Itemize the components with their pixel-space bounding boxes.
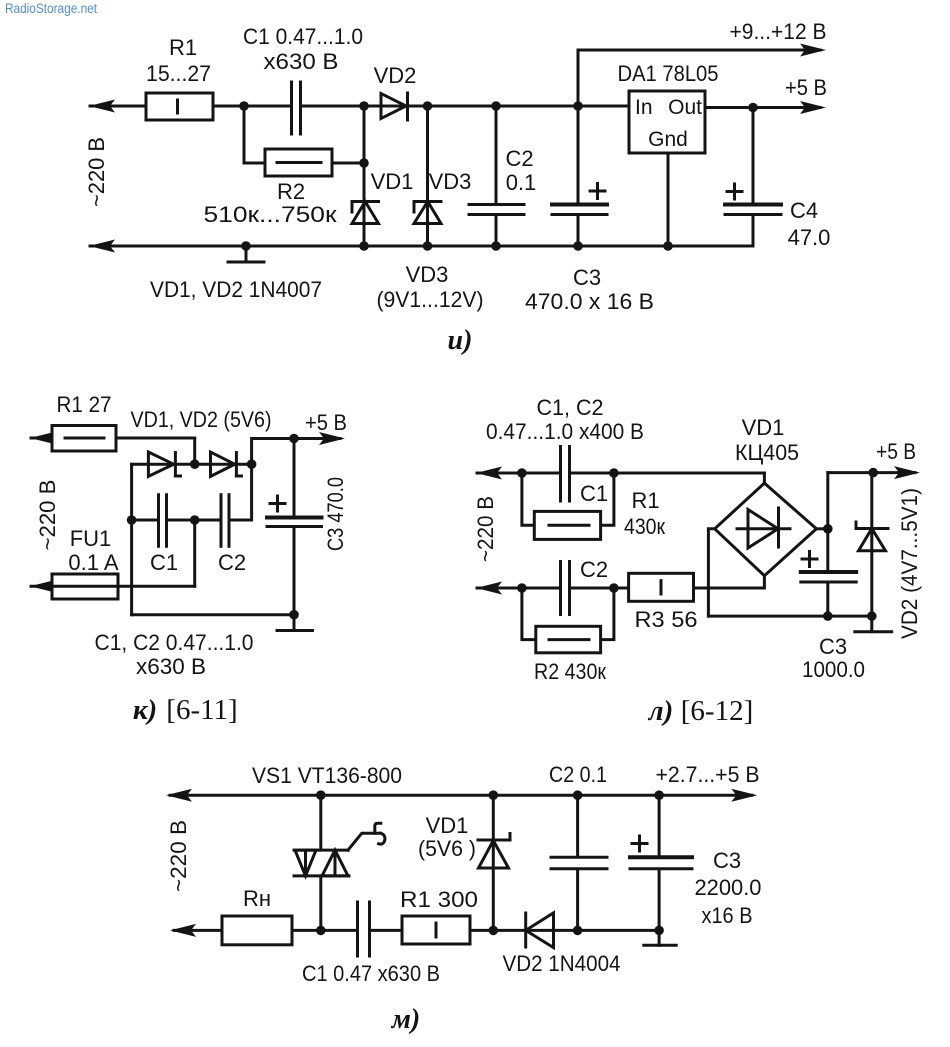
node junctions k [127,434,299,620]
wire C2 branch [495,106,498,203]
bridge rectifier VD1 [715,483,817,576]
svg-text:[6-11]: [6-11] [166,694,237,726]
wire VD1 branch [363,106,366,246]
wire R2 loop l [522,588,536,640]
node junctions m [316,790,664,935]
svg-text:Gnd: Gnd [648,128,688,151]
resistor R2 [265,149,332,176]
svg-text:x16 В: x16 В [702,903,753,928]
svg-text:R1 300: R1 300 [400,887,478,912]
wire bridge top stub [763,473,766,483]
svg-text:1000.0: 1000.0 [802,657,865,682]
capacitor C1 k [157,495,160,547]
zener VD3 [414,200,441,203]
svg-text:C2 0.1: C2 0.1 [549,762,607,787]
wire bridge left to bottom [708,529,714,616]
node junctions bottom rail [241,241,673,251]
wire VD1 branch m [492,795,495,930]
svg-text:R3 56: R3 56 [635,607,698,632]
svg-text:C2: C2 [218,550,246,575]
svg-text:Rн: Rн [243,886,271,911]
resistor R1 k [52,426,116,452]
capacitor C3 k [267,516,322,520]
svg-text:C3: C3 [819,634,847,659]
svg-text:VD1: VD1 [371,169,414,194]
wire R1 rail [31,437,195,440]
wire bottom rail [90,245,753,248]
svg-text:R2: R2 [277,179,305,204]
svg-text:C3: C3 [713,848,741,873]
svg-text:VD1: VD1 [426,813,469,838]
ground m [658,930,661,945]
svg-text:FU1: FU1 [70,526,112,551]
capacitor C2 m [551,856,607,859]
wire bottom k [132,613,294,616]
wire C3 branch k [293,439,296,517]
svg-text:R2 430к: R2 430к [534,659,606,684]
svg-text:470.0 x 16 В: 470.0 x 16 В [525,289,654,314]
svg-text:~220 В: ~220 В [166,820,191,892]
wire R1 to diode mid [193,438,196,464]
svg-text:VD1, VD2 (5V6): VD1, VD2 (5V6) [131,407,272,432]
svg-text:47.0: 47.0 [788,225,831,250]
arrow mains l bottom [476,582,502,595]
wire cap row right [230,464,252,520]
plus sign C3 l [802,558,817,561]
capacitor C1 m [356,902,359,956]
wire C3 vertical l [826,473,829,571]
wire C3 branch m [658,795,661,856]
regulator DA1 box [629,91,705,153]
svg-text:к): к) [133,694,157,726]
svg-text:C1, C2 0.47...1.0: C1, C2 0.47...1.0 [95,630,254,655]
svg-text:КЦ405: КЦ405 [735,440,799,465]
svg-text:C2: C2 [505,146,533,171]
svg-text:C3: C3 [573,265,601,290]
svg-text:+5 В: +5 В [305,410,347,435]
ground l [870,616,873,632]
svg-text:(9V1...12V): (9V1...12V) [377,287,484,312]
svg-text:RadioStorage.net: RadioStorage.net [5,1,97,16]
diode VD2 m [524,913,527,947]
capacitor C2 k [220,495,223,547]
svg-text:R1 27: R1 27 [57,392,112,417]
arrow mains k bottom [30,580,56,593]
capacitor C2 l [559,562,562,615]
arrow mains m left [166,789,192,802]
triac VS1 [294,849,348,852]
svg-text:0.1: 0.1 [506,170,537,195]
svg-text:~220 В: ~220 В [84,137,109,207]
svg-text:VD2 1N4004: VD2 1N4004 [503,951,621,976]
fuse FU1 [52,574,118,599]
svg-text:DA1 78L05: DA1 78L05 [618,61,719,86]
capacitor C1 l [559,447,562,502]
zener VD1 k [148,452,173,476]
wire top rail m [170,794,752,797]
resistor Rn [222,916,292,945]
arrow mains m bottom [170,924,196,937]
wire R2 branch left [244,106,265,163]
wire diode row [132,463,252,466]
wire R1 loop l [522,473,534,525]
ground k [293,615,296,631]
svg-text:510к...750к: 510к...750к [204,202,337,227]
svg-text:In: In [635,96,653,119]
svg-text:VD2 (4V7...5V1): VD2 (4V7...5V1) [897,488,922,639]
wire bottom rail l [477,587,560,590]
wire top rail right of C1 [302,105,629,108]
arrow out m right [731,789,757,802]
zener VD1 [352,200,379,203]
svg-text:[6-12]: [6-12] [681,695,753,727]
svg-text:VD3: VD3 [406,262,449,287]
svg-text:~220 В: ~220 В [35,480,60,551]
svg-text:C2: C2 [580,557,608,582]
svg-text:x630 В: x630 В [264,49,339,74]
svg-text:+5 В: +5 В [876,439,916,464]
node junctions top rail [239,101,758,168]
zener VD2 l [856,527,888,530]
capacitor C2 [469,203,524,206]
arrow +9...+12V [800,44,826,57]
plus sign C3 m [632,842,647,845]
plus sign C3 [590,190,605,193]
svg-text:(5V6 ): (5V6 ) [418,836,476,861]
resistor R3 [629,573,694,601]
svg-text:+2.7...+5 В: +2.7...+5 В [656,762,760,787]
capacitor C3 m [630,855,692,859]
svg-text:VS1 VT136-800: VS1 VT136-800 [252,763,402,788]
arrow mains bottom left [89,240,115,253]
wire mid vertical to FU1 [193,520,196,586]
wire C4 branch [752,108,755,204]
wire FU1 rail [31,585,195,588]
svg-text:+9...+12 В: +9...+12 В [730,19,827,44]
wire cap row left [132,519,158,522]
plus sign C3 k [270,502,285,505]
svg-text:м): м) [391,1004,421,1035]
svg-text:2200.0: 2200.0 [695,875,762,900]
svg-text:0.47...1.0 x400 В: 0.47...1.0 x400 В [486,419,644,444]
wire VD3 branch [426,106,429,246]
arrow mains l top [476,467,502,480]
arrow +5V l [894,466,920,479]
svg-text:л): л) [648,695,674,727]
capacitor C1 [290,82,293,134]
arrow +5V k [319,432,345,445]
svg-text:x630 В: x630 В [136,654,206,679]
wire bottom common l [708,615,871,618]
wire +9V takeoff vertical [577,50,580,203]
capacitor C4 [725,203,781,207]
wire top rail l [477,472,560,475]
svg-text:C1 0.47 x630 В: C1 0.47 x630 В [302,961,440,986]
svg-text:VD1: VD1 [742,415,785,440]
gate lead VS1 [348,833,381,850]
wire C2 branch m [576,795,579,856]
wire VD2 branch l [870,473,873,616]
resistor R2 l [536,626,601,653]
svg-text:0.1 A: 0.1 A [68,550,118,575]
svg-text:VD2: VD2 [374,63,417,88]
capacitor C3 l [801,570,856,574]
svg-text:и): и) [448,325,473,356]
svg-text:Out: Out [668,96,702,119]
svg-text:R1: R1 [631,488,659,513]
wire cap row mid [167,519,221,522]
svg-text:15...27: 15...27 [146,61,211,86]
svg-text:C1 0.47...1.0: C1 0.47...1.0 [243,24,363,49]
svg-text:+5 В: +5 В [785,75,827,100]
svg-text:VD1, VD2 1N4007: VD1, VD2 1N4007 [150,277,322,302]
resistor R1 [146,93,213,120]
plus sign C4 [727,190,742,193]
svg-text:R1: R1 [169,35,197,60]
wire top rail left [90,105,290,108]
zener VD1 m [478,839,510,842]
wire DA1 out [705,106,820,109]
ground symbol [245,246,248,262]
wire R3 to bridge [694,576,765,588]
wire +5V rail k [252,439,340,465]
node junctions l [517,468,878,621]
diode VD2 [381,94,406,119]
wire bridge right [816,527,827,530]
capacitor C3 [552,203,607,207]
wire DA1 gnd [667,153,670,246]
svg-text:C4: C4 [790,198,818,223]
wire bottom rail m [174,929,356,932]
zener VD2 k [211,452,235,476]
arrow mains top left [89,100,115,113]
wire left vertical k [130,464,133,615]
svg-text:430к: 430к [624,514,665,539]
arrow mains k top [30,432,56,445]
svg-text:C1: C1 [580,481,608,506]
svg-text:C1, C2: C1, C2 [537,395,604,420]
wire triac vertical [319,795,322,850]
wire +9V out rail [578,49,820,52]
wire +5V rail l [828,471,915,474]
svg-text:C1: C1 [150,550,178,575]
resistor R1 m [402,916,470,944]
svg-text:VD3: VD3 [429,169,472,194]
wire R2 branch right [332,162,364,165]
arrow +5V out [800,101,826,114]
resistor R1 l [534,511,600,539]
svg-text:~220 В: ~220 В [473,496,498,562]
svg-text:C3 470.0: C3 470.0 [323,477,348,551]
